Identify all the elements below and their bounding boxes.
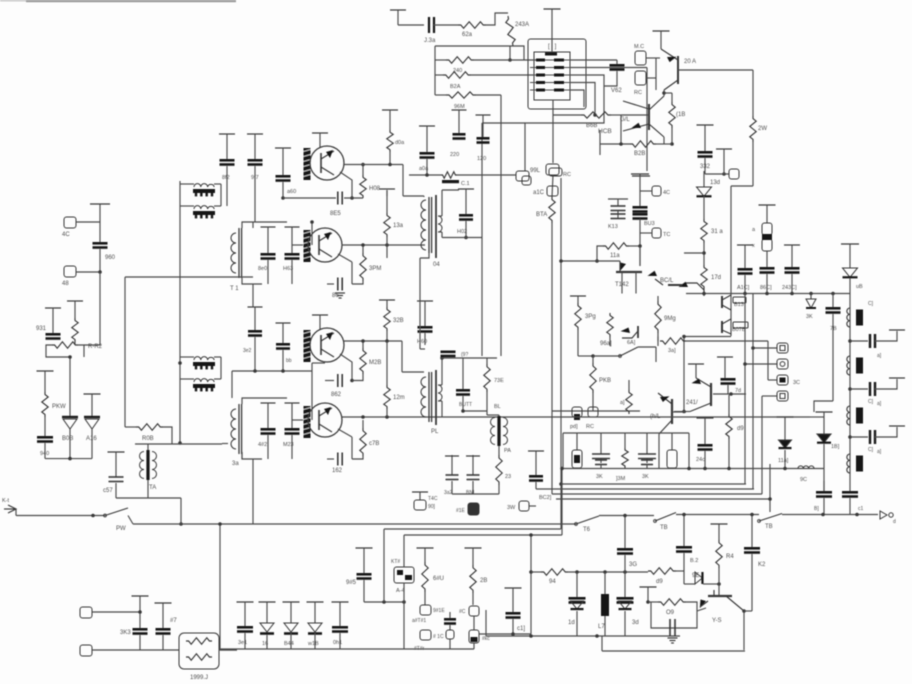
- svg-text:w1B: w1B: [307, 641, 319, 647]
- vertical x220: [219, 524, 221, 650]
- switch TB: [655, 513, 676, 522]
- svg-text:d9: d9: [737, 426, 744, 432]
- cap tap2: [848, 387, 852, 391]
- resistor 9Mg: [657, 296, 659, 301]
- svg-text:RC: RC: [634, 90, 642, 96]
- svg-text:pd]: pd]: [570, 424, 578, 430]
- svg-text:TA: TA: [149, 485, 156, 491]
- wire Q2: [338, 254, 352, 262]
- capacitor 24c: [697, 417, 714, 419]
- svg-text:# 1C: # 1C: [433, 634, 444, 640]
- wire: [220, 649, 237, 651]
- wire: [242, 278, 262, 284]
- wire: [252, 222, 254, 228]
- wire: [601, 636, 603, 651]
- wire: [351, 437, 353, 459]
- capacitor 7d: [717, 356, 733, 358]
- diode uB: [841, 243, 859, 245]
- wire 245: [342, 244, 425, 246]
- wire to R B6B: [553, 114, 581, 116]
- wire: [529, 505, 536, 507]
- bus nest 484: [561, 483, 746, 485]
- resistor 3a h: [657, 337, 659, 342]
- connector b3: [777, 375, 788, 385]
- wire 443 right: [222, 443, 228, 445]
- wire: [782, 514, 878, 516]
- wire: [486, 13, 508, 25]
- svg-text:8f2: 8f2: [222, 175, 230, 181]
- svg-text:K13: K13: [608, 224, 618, 230]
- wire: [52, 356, 70, 358]
- wire Q3 out: [340, 354, 352, 381]
- svg-text:d9: d9: [656, 579, 663, 585]
- connector b1: [777, 343, 788, 353]
- svg-text:24c: 24c: [696, 457, 705, 463]
- svg-text:04: 04: [433, 262, 440, 268]
- svg-text:uB: uB: [856, 284, 863, 290]
- svg-text:3d: 3d: [632, 620, 639, 626]
- wire long vertical 2: [560, 178, 562, 529]
- svg-text:23: 23: [505, 474, 511, 480]
- svg-text:V62: V62: [611, 88, 622, 94]
- capacitor 931: [45, 307, 61, 309]
- box RC4: [588, 407, 598, 417]
- svg-text:a]: a]: [877, 353, 882, 359]
- capacitor BU3T: [462, 358, 464, 389]
- long wire from T4 to bottom: [419, 258, 421, 349]
- wire: [703, 243, 705, 265]
- svg-text:C]: C]: [868, 399, 874, 405]
- box M.C: [635, 51, 646, 65]
- svg-text:6#U: 6#U: [433, 576, 444, 582]
- diode 1B: [816, 411, 833, 413]
- wire: [485, 610, 487, 636]
- capacitor 249: [248, 306, 263, 308]
- box 3W: [519, 501, 529, 511]
- transistor Q4: [308, 403, 342, 437]
- svg-text:B2A: B2A: [450, 84, 461, 90]
- wire 602: [364, 601, 404, 603]
- capacitor B: [816, 491, 832, 494]
- inductor L1: [847, 308, 850, 327]
- resistor d9b: [648, 568, 676, 574]
- svg-text:M23: M23: [283, 442, 294, 448]
- wire: [570, 59, 617, 61]
- inductor L4: [847, 454, 850, 473]
- capacitor H02: [458, 188, 474, 190]
- scan streak top: [26, 0, 236, 2]
- wire: [180, 183, 194, 185]
- svg-text:PL: PL: [431, 429, 439, 435]
- T bar: [90, 203, 110, 205]
- svg-text:96M: 96M: [454, 104, 465, 110]
- diode 16: [259, 601, 276, 603]
- svg-text:73E: 73E: [494, 378, 504, 384]
- wire 417: [342, 416, 810, 418]
- svg-text:6A]: 6A]: [627, 340, 636, 346]
- capacitor C1: [428, 17, 430, 33]
- svg-text:a1C: a1C: [533, 190, 545, 196]
- svg-text:B44: B44: [284, 641, 294, 647]
- wire: [655, 58, 657, 90]
- wire: [525, 75, 604, 171]
- resistor B6B: [581, 112, 611, 118]
- svg-text:13a: 13a: [393, 223, 404, 229]
- svg-text:9Mg: 9Mg: [664, 316, 676, 322]
- svg-text:O9: O9: [666, 610, 675, 616]
- transformer T2: [238, 404, 240, 454]
- svg-text:243A: 243A: [515, 22, 529, 28]
- svg-text:4C: 4C: [62, 232, 70, 238]
- resistor 12m: [386, 341, 388, 385]
- svg-text:3a2: 3a2: [444, 490, 453, 496]
- resistor R-R2: [46, 345, 52, 357]
- svg-text:960: 960: [105, 255, 116, 261]
- T bar Q3: [312, 314, 328, 316]
- svg-text:32B: 32B: [393, 318, 404, 324]
- switch PW: [105, 508, 128, 516]
- nest vertical 745: [744, 294, 746, 485]
- svg-text:BU3: BU3: [644, 221, 655, 227]
- transistor 241: [703, 289, 705, 296]
- svg-text:T6: T6: [583, 527, 591, 533]
- wire to IC 75: [471, 74, 534, 76]
- T bar Q1: [312, 132, 328, 134]
- wire: [570, 67, 647, 69]
- resistor a]: [626, 390, 632, 414]
- svg-text:d0a: d0a: [395, 140, 405, 146]
- box #C: [469, 606, 479, 616]
- svg-text:3K3: 3K3: [120, 630, 131, 636]
- bus nest 489: [536, 488, 754, 490]
- connector J1: [80, 607, 92, 618]
- svg-text:#7: #7: [170, 618, 177, 624]
- svg-text:90]: 90]: [428, 504, 436, 510]
- wire 524: [128, 516, 133, 525]
- svg-text:3C: 3C: [793, 380, 800, 386]
- wire 510: [509, 46, 511, 60]
- svg-text:17d: 17d: [711, 275, 721, 281]
- wire T4 bottom: [420, 253, 429, 258]
- wire: [751, 515, 753, 521]
- stub 562: [561, 469, 563, 536]
- svg-text:B]: B]: [814, 506, 819, 512]
- transistor Y-S: [708, 595, 732, 597]
- svg-text:x: x: [752, 243, 755, 249]
- ferrite bead Q1: [304, 148, 311, 180]
- box RC2: [635, 71, 646, 85]
- svg-text:a#T#1: a#T#1: [412, 618, 426, 624]
- svg-text:4C: 4C: [663, 190, 670, 196]
- svg-text:C]: C]: [868, 301, 874, 307]
- rail: [849, 294, 851, 492]
- crystal L7: [604, 572, 606, 594]
- cap el4: [646, 433, 648, 454]
- svg-text:3a: 3a: [232, 461, 239, 467]
- wire: [600, 143, 630, 145]
- T bar: [631, 173, 649, 175]
- resistor 31a: [703, 196, 705, 219]
- svg-text:3a]: 3a]: [668, 348, 676, 354]
- svg-text:9#5: 9#5: [346, 580, 357, 586]
- choke2 T877d: [194, 379, 214, 382]
- wire: [624, 515, 626, 516]
- wire 341: [344, 340, 402, 342]
- wire 237: [442, 237, 482, 239]
- svg-text:RC: RC: [586, 424, 594, 430]
- resistor 3PM: [362, 245, 364, 253]
- svg-text:3e1: 3e1: [238, 640, 247, 646]
- svg-text:B07B: B07B: [732, 327, 746, 333]
- wire: [639, 246, 641, 266]
- wire: [752, 70, 754, 116]
- resistor B2A: [435, 74, 443, 76]
- capacitor a60: [275, 147, 291, 149]
- vertical 768: [767, 341, 769, 380]
- resistor H08: [362, 165, 364, 176]
- svg-text:H60: H60: [417, 339, 427, 345]
- svg-text:c57: c57: [103, 488, 113, 494]
- svg-text:KT#: KT#: [391, 559, 400, 565]
- resistor 17d: [701, 265, 707, 289]
- capacitor 862: [352, 374, 363, 381]
- capacitor 862u: [352, 281, 363, 284]
- wire 371 to Q3: [231, 371, 233, 398]
- transformer T1: [238, 228, 240, 278]
- wire 494: [452, 493, 499, 495]
- capacitor B2: [683, 515, 685, 547]
- capacitor 3c2: [444, 618, 456, 621]
- IC top supply: [544, 8, 561, 10]
- svg-text:a60: a60: [287, 189, 296, 195]
- zener 3K: [810, 294, 812, 300]
- wire 46: [435, 45, 512, 47]
- diode w1B: [307, 601, 324, 603]
- zener 3d: [624, 572, 626, 597]
- wire y46: [512, 46, 524, 60]
- svg-text:243C]: 243C]: [782, 285, 797, 291]
- antenna: [8, 505, 16, 513]
- svg-text:4#2: 4#2: [258, 442, 267, 448]
- svg-text:M2B: M2B: [369, 360, 381, 366]
- choke T877b: [194, 206, 214, 209]
- svg-text:2W: 2W: [758, 126, 767, 132]
- svg-text:3PM: 3PM: [369, 266, 381, 272]
- connector b4: [777, 391, 788, 401]
- diode B0B: [69, 357, 71, 416]
- capacitor V62: [616, 60, 618, 64]
- IC U1 outer: [528, 39, 586, 109]
- varistor box 1999: [179, 633, 219, 669]
- svg-text:48: 48: [62, 281, 69, 287]
- svg-text:BC/L: BC/L: [660, 278, 674, 284]
- resistor 13a: [386, 190, 388, 213]
- capacitor 9#5: [356, 547, 373, 549]
- capacitor 120: [476, 114, 491, 116]
- nest vertical 770: [769, 464, 771, 512]
- capacitor 243C: [784, 244, 800, 246]
- capacitor c57: [108, 451, 125, 453]
- svg-text:c1: c1: [858, 506, 864, 512]
- capacitor (9: [441, 351, 456, 354]
- wire: [398, 24, 424, 26]
- svg-text:L7: L7: [598, 624, 605, 630]
- transformer T4: [428, 197, 430, 253]
- bus 293: [686, 293, 850, 295]
- capacitor 940: [44, 417, 46, 436]
- inductor 9C: [798, 466, 814, 469]
- wire: [697, 608, 706, 611]
- resistor 243A diagonal: [506, 16, 515, 46]
- svg-text:0h1: 0h1: [333, 640, 342, 646]
- svg-text:31 a: 31 a: [711, 229, 723, 235]
- wire: [232, 370, 312, 372]
- svg-text:3G: 3G: [629, 562, 637, 568]
- wire: [99, 272, 101, 331]
- svg-text:B13: B13: [734, 302, 744, 308]
- svg-text:3e2: 3e2: [243, 348, 252, 354]
- cap el2: [600, 433, 602, 454]
- capacitor C.1: [442, 180, 459, 183]
- svg-text:PKB: PKB: [599, 378, 611, 384]
- resistor 23: [498, 446, 500, 455]
- vertical x222: [220, 184, 222, 206]
- resistor 73E: [486, 358, 488, 364]
- resistor (1B: [671, 93, 673, 102]
- wire down x253: [252, 284, 254, 307]
- cap tap3: [848, 435, 852, 439]
- svg-text:PKW: PKW: [52, 404, 66, 410]
- capacitor 0h1: [332, 601, 349, 603]
- inductor L3: [847, 406, 850, 425]
- capacitor M23: [285, 402, 300, 404]
- switch 6A: [620, 347, 638, 356]
- cap BC2: [528, 450, 544, 452]
- svg-text:#kc: #kc: [482, 636, 490, 642]
- loop O9: [640, 586, 657, 588]
- svg-text:9f7: 9f7: [251, 175, 259, 181]
- connector 2: [64, 266, 76, 277]
- svg-text:120: 120: [477, 156, 486, 162]
- vertical x482: [481, 123, 483, 356]
- transistor T142: [616, 271, 642, 273]
- wire x403: [403, 602, 405, 649]
- nest vertical 753: [752, 294, 754, 490]
- capacitor in loop: [669, 619, 671, 636]
- box #1E: [468, 503, 479, 515]
- connector 4C: [64, 217, 76, 228]
- svg-text:BL: BL: [494, 404, 501, 410]
- svg-text:BTA: BTA: [536, 212, 547, 218]
- svg-text:240: 240: [453, 68, 462, 74]
- wire 277 right cont: [228, 276, 253, 278]
- inductor L2: [847, 356, 850, 375]
- resistor 6#U: [417, 547, 434, 549]
- T bar 724: [716, 148, 732, 150]
- wire 651: [602, 650, 745, 652]
- power rail T top: [390, 9, 406, 11]
- svg-text:K2: K2: [758, 562, 766, 568]
- wire: [570, 83, 595, 116]
- choke T877a: [194, 184, 214, 187]
- cap tap1: [848, 339, 852, 343]
- varicap 11a: [777, 416, 794, 418]
- wire 197: [281, 196, 285, 200]
- capacitor 3K3: [132, 595, 149, 597]
- svg-text:12m: 12m: [393, 395, 405, 401]
- wire: [640, 190, 652, 192]
- wire: [639, 246, 641, 266]
- svg-text:11a]: 11a]: [778, 458, 789, 464]
- wire 123 left: [482, 122, 525, 124]
- resistor ]3M: [624, 433, 626, 448]
- capacitor #7: [155, 602, 172, 604]
- svg-text:A-4: A-4: [396, 588, 405, 594]
- capacitor 4#2: [261, 402, 276, 404]
- svg-text:bb: bb: [286, 358, 292, 364]
- wire: [599, 130, 601, 155]
- box a1C: [547, 186, 558, 196]
- capacitor 8f2: [219, 133, 235, 135]
- wire: [241, 452, 243, 459]
- svg-text:9#1E: 9#1E: [433, 608, 445, 614]
- diode A16: [84, 393, 101, 395]
- wire box4: [762, 395, 777, 397]
- svg-text:7B: 7B: [830, 326, 837, 332]
- switch TB2: [759, 514, 782, 522]
- wire Q1 collector: [344, 164, 403, 166]
- svg-text:M.C: M.C: [634, 44, 644, 50]
- svg-text:J.3a: J.3a: [424, 38, 436, 44]
- svg-text:3Pg: 3Pg: [585, 314, 596, 320]
- wire: [752, 142, 754, 186]
- wire: [423, 196, 425, 197]
- capacitor 9f7: [247, 133, 263, 135]
- svg-text:RC: RC: [563, 172, 571, 178]
- svg-text:13d: 13d: [710, 180, 720, 186]
- wire 444: [135, 443, 222, 445]
- svg-text:C.1: C.1: [461, 181, 470, 187]
- wire: [676, 514, 759, 516]
- resistor M2B: [362, 341, 364, 348]
- capacitor A1C: [737, 244, 753, 246]
- svg-text:TB: TB: [660, 525, 668, 531]
- transistor Q3: [310, 328, 344, 362]
- capacitor K13: [611, 205, 626, 207]
- resistor R62B: [458, 22, 486, 28]
- wire: [242, 222, 287, 228]
- svg-text:T 1: T 1: [230, 286, 239, 292]
- wire: [563, 432, 689, 434]
- box 9#1E: [420, 605, 431, 615]
- bus nest 499: [556, 498, 770, 500]
- resistor 96a: [607, 313, 613, 337]
- zener 1d: [576, 572, 578, 597]
- connector J2: [80, 645, 92, 656]
- connector b2: [777, 359, 788, 369]
- resistor d4B: [552, 175, 553, 197]
- svg-text:c7B: c7B: [369, 441, 379, 447]
- box RC top2: [549, 168, 562, 176]
- svg-text:R4: R4: [726, 554, 734, 560]
- svg-text:931: 931: [36, 326, 47, 332]
- svg-text:3W: 3W: [507, 505, 516, 511]
- svg-text:B2B: B2B: [634, 151, 645, 157]
- resistor 96M: [435, 94, 446, 96]
- resistor 94: [531, 571, 541, 573]
- ferrite bead Q2: [304, 230, 311, 262]
- bus nest 494: [552, 493, 762, 495]
